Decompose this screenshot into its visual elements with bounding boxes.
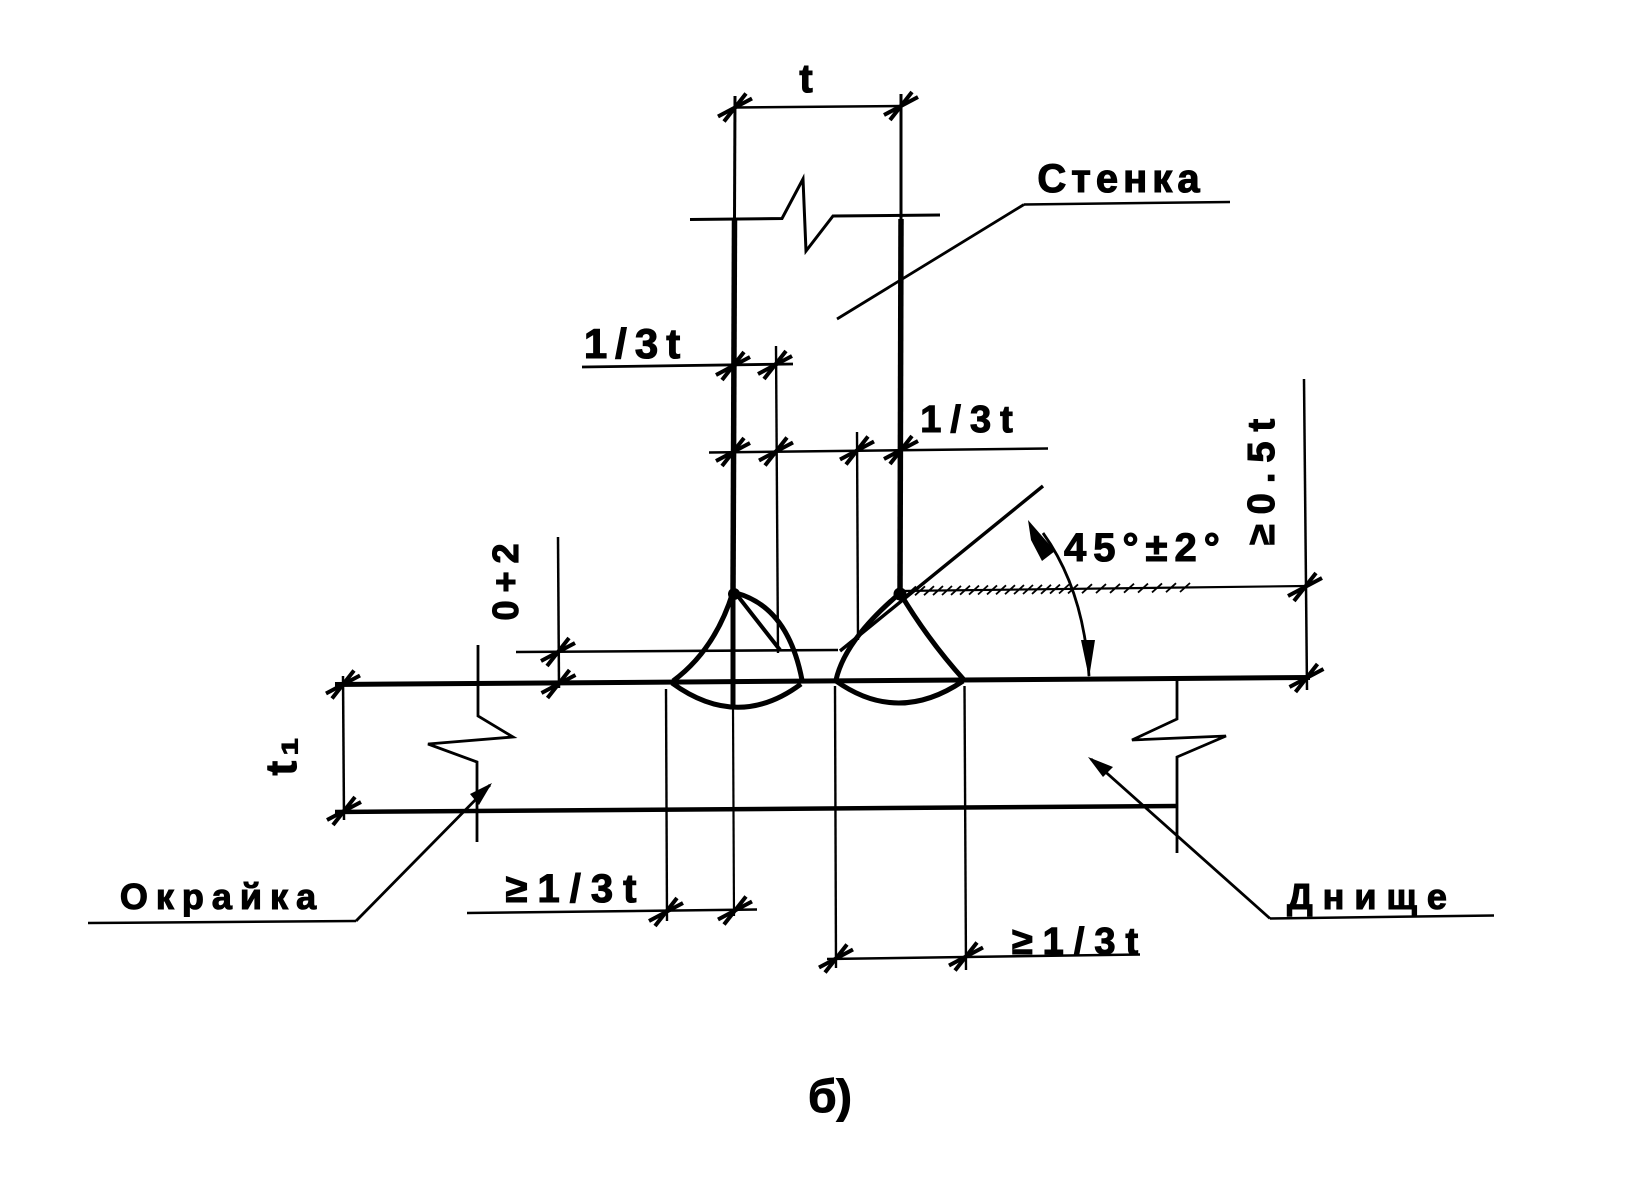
45 degree angle arc: [1043, 533, 1089, 676]
tick: [949, 943, 983, 971]
wall left extension line to bottom dimension: [733, 708, 734, 916]
dimension >=0.5t vertical line: [1304, 379, 1307, 690]
svg-text:1/3t: 1/3t: [920, 399, 1021, 441]
tick: [1288, 573, 1322, 601]
hatch ticks on reference line: [906, 583, 1190, 595]
right weld right boundary: [900, 593, 965, 681]
Stenka leader line: [837, 205, 1024, 320]
Dnishche leader line: [1091, 759, 1270, 919]
tick: [759, 438, 793, 466]
wall left line (thin extension above break): [733, 96, 737, 219]
tick: [327, 797, 361, 825]
arc arrowhead upper: [1028, 520, 1055, 561]
extension line x=666: [666, 689, 667, 921]
svg-text:≥0.5t: ≥0.5t: [1241, 409, 1283, 545]
extension line x=966: [965, 686, 967, 970]
arc arrowhead lower: [1081, 640, 1095, 678]
svg-text:≥1/3t: ≥1/3t: [1012, 921, 1148, 963]
dimension >=1/3t bottom-left line: [467, 910, 757, 914]
tick: [884, 436, 918, 464]
right weld left boundary: [836, 594, 899, 680]
left weld right boundary: [736, 593, 802, 680]
tick: [716, 352, 750, 380]
svg-text:t: t: [799, 57, 812, 101]
wall bottom edge line: [516, 650, 838, 652]
left weld root bulge: [672, 683, 801, 707]
tick: [819, 945, 853, 973]
tick at t right: [884, 92, 918, 120]
dimension t line: [735, 106, 901, 108]
tick at t left: [718, 94, 752, 122]
svg-text:Стенка: Стенка: [1037, 157, 1204, 201]
tick: [1290, 664, 1324, 692]
wall left line (thick): [733, 219, 735, 594]
Stenka underline: [1024, 202, 1230, 205]
left weld left boundary: [673, 592, 733, 681]
tick: [840, 437, 874, 465]
svg-text:б): б): [808, 1070, 852, 1122]
right weld 45-degree fusion line: [840, 486, 1043, 651]
dnishche break symbol: [1132, 680, 1226, 853]
junction blob right weld apex: [894, 588, 907, 601]
left weld fusion line: [737, 595, 780, 650]
dimension >=1/3t bottom-center line: [827, 955, 1140, 960]
tick: [758, 351, 792, 379]
tick: [649, 898, 683, 926]
junction blob left weld apex: [728, 588, 740, 600]
Dnishche leader arrowhead: [1088, 757, 1113, 777]
extension line x=857: [857, 432, 858, 640]
tick: [716, 438, 750, 466]
tick: [718, 897, 752, 925]
extension line x=776: [776, 346, 778, 653]
okrayka break symbol: [428, 645, 513, 842]
wall break symbol: [690, 179, 940, 251]
dimension 1/3t right line: [709, 449, 1048, 453]
okrayka bottom line: [335, 806, 1177, 812]
svg-text:0+2: 0+2: [485, 535, 526, 620]
tick: [542, 670, 576, 698]
wall left line through weld: [731, 594, 736, 708]
dimension 0+2 vertical line: [558, 537, 559, 688]
bottom plate top line: [335, 678, 1310, 685]
Okrayka underline: [88, 921, 356, 923]
extension line x=836: [835, 686, 836, 968]
Dnishche underline: [1270, 916, 1494, 919]
svg-text:≥1/3t: ≥1/3t: [506, 867, 647, 911]
Okrayka leader line: [356, 785, 490, 921]
svg-text:45°±2°: 45°±2°: [1064, 526, 1227, 570]
tick: [541, 638, 575, 666]
svg-text:t₁: t₁: [257, 733, 306, 776]
dimension t1 vertical line: [343, 676, 344, 820]
hatched reference line: [899, 586, 1305, 591]
svg-text:1/3t: 1/3t: [584, 320, 688, 367]
tick: [326, 671, 360, 699]
wall right line (thick): [900, 219, 901, 593]
svg-text:Днище: Днище: [1287, 876, 1457, 917]
dimension 1/3t upper-left line: [582, 364, 793, 367]
svg-text:Окрайка: Окрайка: [120, 876, 324, 917]
right weld root bulge: [836, 681, 963, 703]
Okrayka leader arrowhead: [470, 783, 492, 805]
wall right line (thin extension above break): [900, 94, 903, 219]
